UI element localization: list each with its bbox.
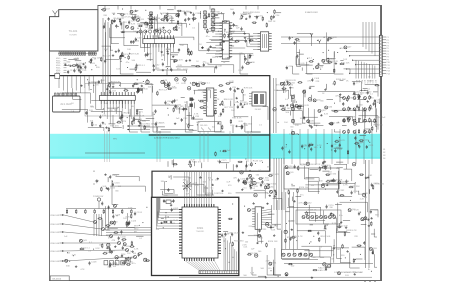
- capacitor C106: [308, 98, 311, 101]
- capacitor C175: [291, 107, 294, 110]
- resistor R123: [297, 166, 299, 167]
- wire: [359, 100, 361, 107]
- ground: [112, 54, 114, 55]
- resistor R31: [206, 29, 208, 30]
- node: [95, 65, 96, 66]
- ground: [354, 273, 356, 274]
- ground: [236, 97, 238, 98]
- resistor R88: [298, 81, 299, 83]
- wires U202 left: [253, 32, 257, 34]
- wire: [176, 67, 215, 73]
- capacitor C43: [245, 39, 247, 41]
- capacitor C35: [153, 68, 155, 70]
- svg-text:47u: 47u: [111, 250, 114, 252]
- wire: [110, 186, 145, 192]
- node: [112, 181, 113, 182]
- wire bottom bus: [284, 263, 373, 265]
- node: [364, 90, 365, 91]
- node: [232, 204, 233, 205]
- capacitor C130: [144, 258, 147, 261]
- wire: [164, 181, 173, 193]
- wire: [309, 205, 325, 221]
- wire: [301, 246, 331, 256]
- resistor R90: [375, 84, 376, 86]
- capacitor C6: [310, 147, 312, 149]
- ground: [165, 16, 167, 17]
- wire: [64, 232, 109, 236]
- wire: [320, 248, 324, 258]
- resistor R125: [325, 266, 327, 267]
- capacitor C173: [236, 164, 238, 166]
- connector CN801: [379, 35, 382, 76]
- transistor Q69: [353, 119, 356, 122]
- ground: [132, 250, 134, 251]
- wires U601 right-down bundle: [223, 236, 225, 271]
- node: [85, 62, 86, 63]
- svg-text:R77 103: R77 103: [225, 107, 234, 109]
- capacitor C69: [137, 89, 139, 91]
- resistor R43: [270, 15, 272, 16]
- connector pins AV: [55, 93, 56, 96]
- node: [328, 58, 329, 59]
- capacitor C55: [286, 66, 288, 68]
- wires U601 bottom fan: [186, 261, 201, 271]
- capacitor C60: [356, 105, 358, 107]
- ground: [217, 178, 219, 179]
- svg-text:DL301: DL301: [255, 109, 262, 111]
- ground: [365, 177, 367, 178]
- ground: [339, 93, 341, 94]
- wire: [293, 100, 301, 124]
- node: [168, 115, 169, 116]
- wire: [330, 167, 332, 170]
- resistor R20: [195, 65, 196, 67]
- resistor R138: [344, 231, 346, 232]
- resistor R800: [348, 95, 350, 96]
- ground: [121, 54, 123, 55]
- resistor R168: [359, 174, 360, 176]
- wire: [307, 62, 313, 74]
- svg-text:8.2K: 8.2K: [181, 83, 186, 85]
- capacitor C11: [84, 65, 86, 67]
- capacitor C163: [333, 178, 335, 180]
- wire right bus pair: [364, 160, 366, 268]
- svg-text:R42 1K: R42 1K: [268, 21, 276, 23]
- capacitor C64: [353, 91, 355, 93]
- resistor R53: [109, 83, 111, 84]
- svg-text:B4: B4: [383, 158, 385, 160]
- wire: [170, 58, 176, 60]
- transistor Q68: [343, 119, 346, 122]
- svg-text:R148 100: R148 100: [180, 11, 190, 13]
- node: [198, 100, 199, 101]
- wire: [254, 190, 266, 198]
- resistor R83: [281, 108, 282, 110]
- ground: [309, 124, 311, 125]
- resistor R58: [116, 121, 117, 123]
- node: [304, 148, 305, 149]
- capacitor C100: [237, 105, 239, 107]
- capacitor C150: [270, 225, 272, 227]
- capacitor C12: [90, 58, 92, 60]
- wire: [273, 199, 282, 210]
- capacitor C147: [245, 164, 247, 166]
- resistor R60: [91, 122, 93, 123]
- svg-text:R136 100: R136 100: [375, 183, 385, 185]
- node: [122, 263, 123, 264]
- svg-text:R25 470: R25 470: [174, 60, 183, 62]
- svg-text:P13: P13: [387, 71, 390, 73]
- ground: [106, 88, 108, 89]
- switch SW601: [97, 198, 100, 201]
- wire: [107, 177, 109, 182]
- resistor R124: [297, 188, 299, 189]
- capacitor C124: [134, 212, 136, 214]
- connector row bottom left: [104, 261, 108, 265]
- capacitor C144: [224, 232, 226, 234]
- ground: [257, 242, 259, 243]
- wire: [353, 94, 359, 96]
- transistor Q51: [249, 174, 252, 177]
- capacitor C52: [233, 11, 235, 13]
- resistor R154: [334, 81, 336, 82]
- svg-text:R94 104: R94 104: [360, 139, 369, 141]
- capacitor C67: [109, 91, 111, 93]
- capacitor C34: [136, 64, 138, 66]
- connector box on bus: [55, 74, 60, 79]
- svg-text:47u: 47u: [114, 263, 117, 265]
- wire: [130, 14, 136, 16]
- wire: [166, 66, 170, 68]
- node: [292, 237, 293, 238]
- capacitor C16: [73, 69, 75, 71]
- wire: [111, 88, 143, 93]
- node: [118, 107, 119, 108]
- capacitor C50: [233, 23, 235, 25]
- transistor Q67: [364, 108, 367, 111]
- node: [118, 26, 119, 27]
- transistor Q44: [269, 262, 272, 265]
- ground: [349, 107, 351, 108]
- node: [320, 69, 321, 70]
- wire: [216, 50, 220, 52]
- capacitor C155: [371, 183, 373, 185]
- transistor Q12: [324, 216, 327, 219]
- svg-text:C128: C128: [91, 262, 97, 264]
- node: [113, 14, 114, 15]
- wire: [113, 115, 122, 128]
- capacitor C120: [108, 205, 110, 207]
- resistor R55: [123, 89, 124, 91]
- node: [193, 20, 194, 21]
- wire: [245, 123, 260, 132]
- resistor R121: [349, 186, 350, 188]
- ground: [135, 10, 137, 11]
- capacitor C116: [112, 183, 114, 185]
- ground: [200, 176, 202, 177]
- wire: [157, 14, 165, 37]
- node: [360, 118, 361, 119]
- node: [320, 147, 321, 148]
- capacitor C37: [170, 68, 172, 70]
- wire: [162, 191, 178, 195]
- node: [68, 65, 69, 66]
- wire: [376, 103, 377, 127]
- node: [167, 47, 168, 48]
- svg-text:VIDEO-IN1: VIDEO-IN1: [50, 215, 59, 217]
- ground: [244, 37, 246, 38]
- node: [154, 114, 155, 115]
- svg-text:R33 330: R33 330: [247, 62, 256, 64]
- resistor R6: [84, 209, 86, 210]
- svg-text:C145: C145: [234, 233, 240, 235]
- wire key lines to block: [106, 227, 152, 229]
- diode D6: [309, 253, 312, 256]
- svg-text:1uF: 1uF: [118, 234, 122, 236]
- ground: [285, 274, 287, 275]
- wire verticals power left: [281, 192, 283, 249]
- transistor Q61: [286, 172, 289, 175]
- node: [345, 257, 346, 258]
- capacitor C20: [103, 25, 105, 27]
- wire: [246, 161, 248, 167]
- transistor Q58: [285, 273, 288, 276]
- ground: [253, 202, 255, 203]
- svg-text:R56 470: R56 470: [110, 126, 119, 128]
- node: [297, 189, 298, 190]
- svg-text:P5: P5: [387, 48, 389, 50]
- capacitor C72: [120, 116, 122, 118]
- transistor Q2: [102, 228, 105, 231]
- node: [121, 61, 122, 62]
- node: [275, 225, 276, 226]
- wire: [335, 203, 342, 205]
- wire: [271, 205, 281, 224]
- svg-text:4.7K: 4.7K: [95, 180, 100, 182]
- ground: [372, 252, 374, 253]
- svg-text:2.2K: 2.2K: [134, 249, 139, 251]
- ground: [121, 31, 123, 32]
- svg-text:B2: B2: [383, 152, 385, 154]
- capacitor C46: [245, 57, 247, 59]
- svg-text:2.2K: 2.2K: [171, 223, 176, 225]
- capacitor C79: [164, 84, 167, 87]
- svg-text:2.2K: 2.2K: [266, 261, 271, 263]
- resistor R806: [348, 118, 350, 119]
- transistor Q47: [243, 180, 246, 183]
- capacitor C36: [104, 59, 106, 61]
- capacitor C146: [240, 171, 243, 174]
- node: [313, 236, 314, 237]
- svg-text:R3 1uF: R3 1uF: [223, 150, 231, 152]
- wire: [369, 189, 371, 194]
- wire: [223, 231, 228, 233]
- capacitor C29: [128, 20, 130, 22]
- ground: [136, 31, 138, 32]
- node: [137, 79, 138, 80]
- wire: [370, 119, 372, 126]
- resistor R126: [331, 180, 332, 182]
- resistor R65: [167, 88, 168, 90]
- svg-text:22K: 22K: [316, 81, 320, 83]
- node: [220, 151, 221, 152]
- title box: [50, 276, 69, 281]
- resistor R34: [241, 15, 243, 16]
- wire: [105, 32, 119, 59]
- wire: [331, 110, 365, 118]
- capacitor C165: [370, 210, 372, 212]
- wire: [215, 54, 244, 63]
- wire: [297, 52, 300, 54]
- svg-text:2.2K: 2.2K: [238, 70, 243, 72]
- capacitor C63: [367, 91, 369, 93]
- capacitor C80: [192, 82, 195, 85]
- svg-text:R155 8.2K: R155 8.2K: [299, 105, 310, 107]
- transistor Q52: [304, 202, 307, 205]
- svg-text:8.2K: 8.2K: [332, 223, 337, 225]
- wire: [359, 116, 379, 130]
- wire: [340, 79, 344, 81]
- node: [142, 222, 143, 223]
- wire: [291, 185, 295, 187]
- transistor Q33: [318, 109, 321, 112]
- wire: [109, 123, 116, 125]
- svg-text:P6: P6: [387, 51, 389, 53]
- wire: [201, 163, 203, 168]
- wire: [194, 161, 196, 166]
- wire: [62, 93, 91, 104]
- wire: [296, 56, 309, 65]
- resistor R101: [79, 248, 80, 250]
- ground: [228, 33, 230, 34]
- ground: [172, 56, 174, 57]
- node: [93, 249, 94, 250]
- resistor R122: [337, 226, 338, 228]
- node: [361, 90, 362, 91]
- wire: [130, 68, 135, 70]
- transistor Q45: [247, 209, 250, 212]
- resistor R78: [241, 89, 243, 90]
- resistor R149: [208, 13, 210, 14]
- capacitor C101: [342, 102, 344, 104]
- capacitor C172: [189, 160, 191, 162]
- ground: [245, 18, 247, 19]
- resistor R132: [324, 225, 326, 226]
- wire: [143, 23, 182, 36]
- wire: [194, 91, 196, 95]
- node: [233, 257, 234, 258]
- resistor R69: [188, 123, 190, 124]
- capacitor C93: [192, 116, 194, 118]
- capacitor C187: [289, 237, 291, 239]
- sub-box chroma: [85, 83, 152, 116]
- resistor R112: [163, 221, 164, 223]
- resistor R140: [342, 244, 344, 245]
- svg-text:CN-21D4: CN-21D4: [52, 278, 62, 280]
- wire arrows into band: [127, 125, 150, 127]
- resistor R47: [309, 60, 310, 62]
- capacitor C59: [289, 36, 291, 38]
- resistor R56: [108, 127, 110, 128]
- transistor Q34: [287, 82, 290, 85]
- capacitor C2: [308, 144, 310, 146]
- wire: [310, 224, 313, 226]
- svg-text:R78 10K: R78 10K: [244, 87, 253, 89]
- ground: [113, 20, 115, 21]
- node: [117, 215, 118, 216]
- ground: [241, 188, 243, 189]
- ground: [163, 27, 165, 28]
- resistor R45: [333, 68, 335, 69]
- svg-text:1uF: 1uF: [251, 248, 255, 250]
- resistor R102: [109, 248, 111, 249]
- resistor R51: [138, 89, 139, 91]
- capacitor C127: [121, 254, 123, 256]
- wire: [112, 180, 118, 205]
- node: [163, 227, 164, 228]
- ground: [265, 276, 267, 277]
- ground: [236, 125, 238, 126]
- wire: [325, 84, 327, 90]
- ground: [75, 265, 77, 266]
- node: [129, 53, 130, 54]
- transistor Q23: [130, 10, 133, 13]
- ground: [268, 184, 270, 185]
- ground: [326, 184, 328, 185]
- power block SB4: [284, 168, 339, 189]
- ground: [269, 195, 271, 196]
- ground: [367, 100, 369, 101]
- tuner TU101: [50, 10, 98, 51]
- capacitor C190: [294, 165, 296, 167]
- wire: [126, 221, 128, 228]
- svg-text:4.7K: 4.7K: [186, 124, 191, 126]
- svg-text:C100: C100: [240, 105, 246, 107]
- transistor Q24: [326, 58, 329, 61]
- resistor R15: [154, 30, 155, 32]
- capacitor C75: [99, 115, 101, 117]
- ground: [170, 204, 172, 205]
- wire: [165, 215, 167, 219]
- capacitor C179: [193, 17, 195, 19]
- capacitor C178: [150, 13, 152, 15]
- ground: [220, 43, 222, 44]
- node: [286, 223, 287, 224]
- node: [231, 38, 232, 39]
- capacitor C139: [250, 186, 252, 188]
- svg-text:R142 0.1: R142 0.1: [192, 162, 202, 164]
- node: [369, 142, 370, 143]
- resistor R10: [121, 209, 123, 210]
- capacitor C129: [109, 264, 111, 266]
- wire: [292, 197, 294, 202]
- capacitor C99: [220, 112, 222, 114]
- wire: [102, 46, 111, 51]
- svg-text:R37 1K: R37 1K: [250, 39, 258, 41]
- capacitor C136: [238, 178, 240, 180]
- node: [155, 112, 156, 113]
- transistor Q22: [176, 14, 179, 17]
- svg-text:1uF: 1uF: [176, 118, 180, 120]
- capacitor C142: [170, 220, 172, 222]
- ground: [192, 98, 194, 99]
- wire: [334, 52, 343, 74]
- wire: [365, 84, 378, 96]
- wire: [240, 54, 248, 75]
- svg-text:8.2K: 8.2K: [191, 160, 196, 162]
- svg-text:IC601: IC601: [197, 227, 204, 230]
- ground: [223, 41, 225, 42]
